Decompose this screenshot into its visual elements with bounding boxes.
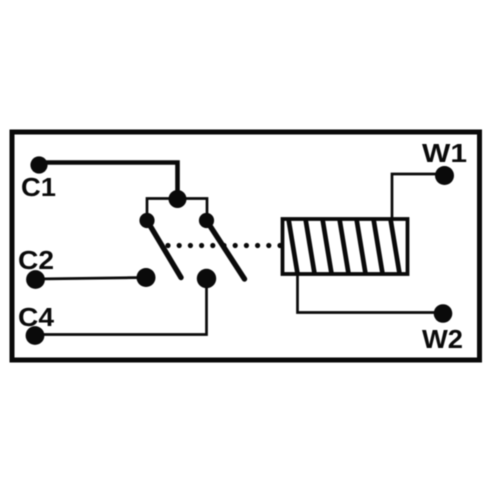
contact node C4 [197, 269, 216, 288]
terminal C1 [30, 156, 47, 173]
terminal W1 [435, 166, 454, 185]
svg-text:W1: W1 [422, 138, 467, 168]
svg-text:W2: W2 [422, 324, 463, 354]
switch arm left [147, 221, 181, 278]
switch arm right [207, 221, 245, 280]
contact pivot node left [139, 213, 154, 228]
contact node C2 [137, 268, 156, 287]
terminal W2 [434, 304, 453, 323]
coil L1 body [283, 219, 408, 274]
wire C2 to contact [36, 278, 147, 280]
wire C1 to armature junction [39, 163, 178, 197]
terminal C2 [26, 270, 45, 289]
wire C4 contact to terminal [35, 279, 207, 335]
wire W1 to coil [392, 174, 444, 218]
wire coil to W2 [298, 274, 444, 313]
svg-text:C4: C4 [18, 302, 55, 332]
svg-text:C1: C1 [21, 172, 56, 202]
svg-text:C2: C2 [18, 245, 54, 275]
terminal C4 [26, 326, 45, 345]
junction node (armature common) [169, 190, 187, 208]
coil L1 windings [289, 219, 400, 274]
relay outline box [12, 132, 480, 360]
dotted actuator link line [165, 243, 282, 248]
wire junction bracket to contact pivots [147, 199, 207, 221]
contact pivot node right [199, 213, 214, 228]
